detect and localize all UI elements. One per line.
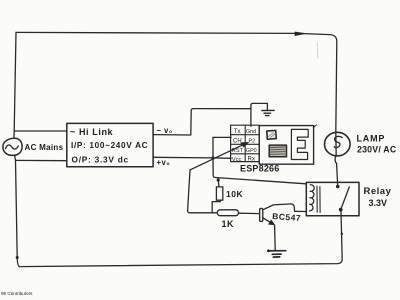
relay core lines: [317, 186, 320, 212]
svg-text:LAMP: LAMP: [357, 134, 386, 144]
wire arrow on top rail: [295, 32, 306, 36]
wire -Vo output: [153, 109, 251, 135]
relay contact bottom: [339, 208, 343, 212]
wire CH_PD pin: [213, 136, 231, 138]
svg-text:AC Mains: AC Mains: [25, 143, 64, 152]
wire AC to HiLink bottom: [16, 159, 67, 161]
wire 10K top: [217, 180, 220, 187]
wire left rail lower: [15, 155, 20, 266]
relay coil loops: [309, 185, 314, 211]
resistor R2 1K: [217, 210, 238, 216]
relay switch blade: [341, 187, 350, 210]
svg-text:+v₀: +v₀: [157, 158, 171, 167]
wire VCC vertical node: [213, 137, 306, 183]
lamp filament squiggle: [334, 136, 342, 147]
svg-text:10K: 10K: [226, 189, 243, 199]
svg-text:230V/ AC: 230V/ AC: [357, 145, 397, 155]
antenna trace (E shape): [291, 129, 308, 159]
svg-text:− v₀: − v₀: [157, 126, 173, 135]
module corner tick: [313, 125, 316, 128]
svg-text:1K: 1K: [222, 219, 235, 229]
ground (ESP): [262, 110, 274, 115]
wire lamp to relay contact: [335, 156, 338, 187]
svg-text:GP0: GP0: [246, 148, 257, 154]
svg-text:Relay: Relay: [364, 186, 392, 197]
svg-text:Vcc: Vcc: [232, 157, 242, 163]
transistor Q1 base bar: [260, 208, 263, 221]
wire bottom rail: [20, 212, 343, 267]
svg-text:~ Hi Link: ~ Hi Link: [70, 127, 114, 137]
svg-text:Rx: Rx: [248, 157, 255, 163]
transistor emitter wire: [263, 218, 273, 224]
wire ESP GND pin to ground: [251, 103, 268, 126]
wire 1K to base: [239, 212, 260, 214]
lamp circle: [325, 132, 351, 156]
power module HiLink box: [67, 123, 153, 166]
svg-text:O/P: 3.3V dc: O/P: 3.3V dc: [72, 155, 129, 165]
wire AC to HiLink top: [14, 130, 67, 132]
ESP8266 module body: [259, 126, 313, 165]
wire +Vo output to VCC pin: [153, 157, 231, 158]
transistor collector wire to relay coil: [263, 204, 306, 212]
AC source circle: [3, 138, 22, 155]
junction blob left rail: [16, 256, 19, 259]
svg-text:BC547: BC547: [272, 211, 302, 223]
svg-text:RST: RST: [232, 148, 244, 154]
wire emitter to ground: [274, 225, 277, 250]
relay box: [306, 182, 359, 215]
svg-text:3.3V: 3.3V: [369, 198, 388, 208]
svg-text:P2: P2: [249, 139, 256, 145]
svg-text:ESP8266: ESP8266: [240, 164, 279, 174]
svg-text:99 Contributors: 99 Contributors: [1, 291, 33, 296]
wire GPIO2 node vertical: [188, 170, 218, 213]
svg-text:Gnd: Gnd: [246, 129, 256, 135]
faint scratch mark: [316, 43, 319, 59]
junction 10K top: [217, 178, 220, 181]
ESP8266 pin header table: [231, 125, 260, 161]
relay contact top: [336, 185, 340, 189]
wire 10K bottom to base node: [212, 200, 220, 213]
wire GPIO2 diagonal with arrow: [190, 144, 246, 170]
resistor R1 10K: [216, 187, 222, 200]
junction blob relay drop wire: [341, 233, 343, 235]
junction +Vo node: [211, 156, 214, 159]
wire through lamp: [335, 133, 337, 156]
wire left rail: [14, 32, 16, 138]
wire top rail: [16, 32, 337, 132]
shield can inside ESP: [269, 145, 286, 157]
chip square inside ESP: [267, 130, 277, 139]
ground (emitter): [268, 251, 286, 257]
svg-text:I/P: 100~240V AC: I/P: 100~240V AC: [71, 141, 148, 150]
svg-text:Tx: Tx: [234, 129, 241, 135]
svg-text:CH: CH: [233, 138, 242, 144]
AC sine symbol: [6, 145, 19, 149]
